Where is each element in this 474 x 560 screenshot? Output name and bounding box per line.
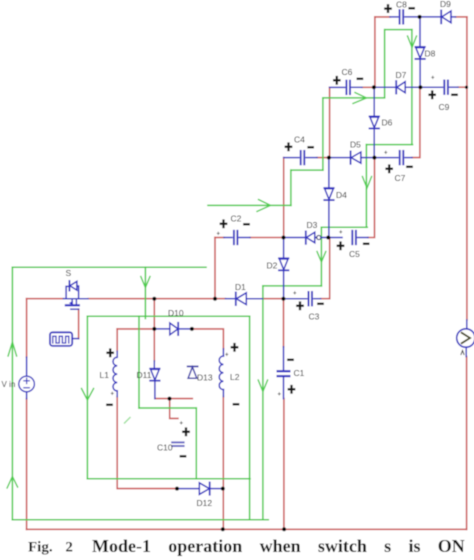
minus C1 [287,359,294,361]
svg-text:L2: L2 [230,372,240,382]
svg-text:D13: D13 [197,373,213,383]
wire green horizontal y170.1 [291,169,323,171]
svg-text:+: + [217,232,221,238]
capacitor C6 [330,81,362,94]
wire row5 left of C8 [375,16,390,18]
node D10 left dot [152,327,156,331]
wire riser x329.6 row4 to row3 [329,87,331,157]
minus C7 [406,166,413,168]
node row5 C8-D8 dot [418,15,422,19]
wire right column top [466,17,468,320]
svg-text:D5: D5 [350,140,361,150]
wire left column below Vin [26,399,28,530]
svg-text:+: + [384,151,388,157]
diode D4 vertical [324,158,333,238]
svg-text:+: + [293,291,297,297]
plus C3 [296,301,304,310]
plus C4 [285,142,293,151]
svg-text:C10: C10 [157,443,173,453]
wire green vertical x322.9 [322,98,324,170]
diode D3 [284,231,317,243]
node row4 C6-D6 dot [372,85,376,89]
gate pulse box [50,332,79,346]
svg-text:S: S [66,268,72,278]
arrowhead down on x87.4 [82,389,94,401]
svg-text:C3: C3 [309,312,320,322]
SMALL BLUE POLARITY TICKS [111,76,436,428]
svg-text:Fig. 2: Fig. 2 [28,540,73,556]
diode D5 [329,151,375,163]
wire green vertical x262.9 [262,286,264,520]
diode D10 [154,323,190,335]
svg-text:C8: C8 [396,0,407,10]
plus C5 [337,241,345,250]
minus C8 [408,7,415,9]
svg-text:C2: C2 [231,214,242,224]
wire L1 bottom to D12 row [117,397,177,489]
arrowhead up on left vertical [8,342,17,356]
svg-text:+: + [339,230,343,236]
wire row3 right of C7 [412,87,420,157]
wire green vertical x290.9 [290,170,292,205]
wire row4 between C6 and D7 [362,86,374,88]
diode D13 floating [188,366,198,378]
blue lead row2 C2 [224,237,232,239]
inductor L2 [219,349,223,397]
capacitor C10 [172,442,183,446]
wire gate riser [78,309,80,338]
wire D10 node down to D11 [153,329,155,361]
svg-text:D3: D3 [307,220,318,230]
node row3 D5-D6 dot [372,156,376,160]
source Vin circle [19,357,35,399]
plus C7 [385,164,393,173]
wire green vertical x412.2 [411,30,413,145]
node bottom rail C1 dot [282,527,286,531]
plus C10 [182,427,190,436]
plus C6 [333,76,341,85]
svg-text:+: + [111,392,115,398]
plus C8 [384,4,392,13]
switch S mosfet symbol [63,281,88,309]
wire row3 between C4 and D5 [317,157,329,159]
minus C6 [357,78,364,80]
diode D1 [236,293,263,306]
capacitor C7 [374,151,412,164]
node D12 right dot [221,487,225,491]
svg-text:D10: D10 [168,308,184,318]
wire row2 C2 to node D2-top [250,237,284,239]
svg-text:+: + [225,353,229,359]
wire left column above Vin [26,299,28,358]
svg-text:Mode-1 operation when switch s: Mode-1 operation when switch s is ON [92,536,465,556]
wire D11 output horizontal [155,398,192,400]
plus C2 [220,219,228,228]
inductor L1 [113,351,117,396]
wire row5 right of D9 [456,16,467,18]
wire row1 switch to D1 [88,298,226,300]
wire green vertical x367 [365,145,367,228]
arrowhead down on x412 [408,36,417,48]
node D1-D2-C1 dot [281,297,285,301]
wire riser x283.5 row1 down to C1 [283,299,285,347]
wire row2 right of C5 [368,158,375,238]
node D10 right dot [190,327,194,331]
diode D6 vertical [370,87,379,157]
wire green top horizontal [12,266,206,268]
wire D10 row left to L1 corner [117,328,154,330]
capacitor C4 [284,151,317,164]
wire green horizontal y205.4 [208,204,291,206]
svg-text:+: + [180,421,184,427]
wire D10 row right to L2 corner [191,329,224,349]
svg-text:D4: D4 [336,190,347,200]
svg-text:D12: D12 [197,498,213,508]
node row2 D3-D4 dot [326,236,330,240]
wire green inner box bottom [87,478,250,480]
blue lead row1 left of D1 [226,298,236,300]
arrowhead down on x367 [362,177,371,189]
svg-text:C5: C5 [349,249,360,259]
node bottom rail L2 dot [221,527,225,531]
diode D12 [177,483,223,495]
node C10 bottom dot [175,487,179,491]
node D11 out dot [168,397,172,401]
svg-text:D2: D2 [267,261,278,271]
wire green vertical x145.4 [144,267,146,318]
svg-text:C1: C1 [294,368,305,378]
arrowhead right on y205.4 [257,200,271,212]
plus C9 [428,90,436,99]
diode D11 vertical [150,361,159,399]
minus C2 [243,223,250,225]
svg-text:C6: C6 [342,67,353,77]
svg-text:L1: L1 [100,370,110,380]
svg-text:C7: C7 [395,173,406,183]
wire L2 bottom column to bottom rail [222,397,224,530]
GREEN ARROWHEADS [7,36,416,488]
arrowhead up on left vertical lower [7,477,18,489]
wire green horizontal y29.6 [385,29,412,31]
arrowhead right on y97.3 [353,93,367,104]
wire riser x374.9 row5 to row4 [374,17,376,87]
plus L1 [106,348,114,357]
plus L2 [231,343,239,352]
capacitor C9 [420,81,458,94]
wire green vertical x321.4 [320,227,322,286]
wire green bottom horizontal [12,519,268,521]
wire row4 right of C9 [458,86,467,88]
wire green horizontal y97.3 [323,97,385,99]
wire green inner box left [86,316,88,479]
node riser215 dot [213,297,217,301]
wire green inner box top [87,315,249,317]
minus C3 [317,303,324,305]
node row2 C2-D2 dot [282,236,286,240]
wire C10 top hook [170,399,178,419]
PLUS MINUS MARKS [106,4,458,457]
svg-text:C4: C4 [294,135,305,145]
wire green inner box right [249,316,251,520]
wire node A down to D10 row [153,299,155,329]
wire green horizontal y408 [139,407,196,409]
diode D2 vertical [279,238,288,299]
svg-text:V in: V in [2,380,16,389]
svg-text:D9: D9 [440,0,451,9]
load probe circle [457,320,474,357]
svg-text:+: + [431,76,435,82]
node A dot [152,297,156,301]
minus C10 [180,455,187,457]
diode D9 [420,11,456,24]
load small mark [461,351,464,355]
minus L2 [233,403,240,405]
svg-text:D6: D6 [382,118,393,128]
capacitor C2 [234,231,250,244]
arrowhead down on x145.4 [141,277,150,288]
diode D8 vertical [415,17,424,87]
wire green left vertical [11,267,13,520]
svg-text:D1: D1 [235,282,246,292]
node row4 C9 right dot [465,86,468,89]
capacitor C5 [352,231,368,244]
wire L1 top lead [116,329,118,351]
arrowhead down on x321.4 [317,252,326,263]
wire green vertical x196.3 [195,408,197,479]
wire bottom rail [27,528,467,530]
arrowhead faint tick near D11 [125,418,131,424]
wire C1 bottom to bottom rail [283,399,285,530]
arrowhead down on x262.9 [258,380,267,392]
node row4 D7-D8 dot [418,85,422,89]
svg-text:D11: D11 [137,370,152,380]
wire right column below load [466,357,468,530]
wire row1 D1 to node B [262,298,283,300]
minus L1 [106,404,113,406]
plus C1 [288,385,296,394]
wire green horizontal y227.3 [321,226,367,228]
wire riser x283.7 row2 to row3 [283,158,285,238]
wire row1 from Vin corner to switch [27,298,64,300]
minus C4 [307,146,314,148]
capacitor C8 [390,10,420,23]
wire riser x215 row1 to row2 [214,238,216,299]
svg-text:+: + [278,392,282,398]
minus C5 [363,243,370,245]
capacitor C1 vertical [278,347,290,399]
svg-text:C9: C9 [439,102,450,112]
GREEN FLOW PATH [12,30,412,520]
minus C9 [451,94,458,96]
wire green horizontal y285.9 [263,285,322,287]
capacitor C3 [283,292,320,305]
svg-text:D7: D7 [396,70,407,80]
diode D7 [374,81,421,93]
wire green vertical x384.6 [384,30,386,98]
blue lead D3 circle to node [321,237,342,239]
node circle after D3 [317,235,321,239]
wire green vertical x139 [138,316,140,408]
svg-text:D8: D8 [425,49,436,59]
node row3 C4-D4 dot [327,156,331,160]
wire row1 right of C3 [321,238,330,299]
wire row2 left of C2 [215,237,224,239]
wire green horizontal y144.6 [366,144,412,146]
